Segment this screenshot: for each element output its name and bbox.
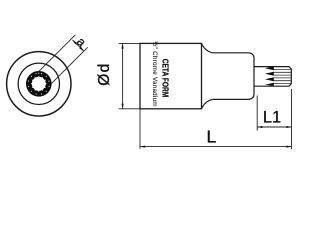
dim L arrow left: [140, 146, 145, 148]
dim L1 arrow left: [257, 126, 262, 128]
dim Od extension line top: [119, 42, 140, 44]
dim Od arrow bottom: [122, 104, 124, 109]
spline runout tooth 1: [265, 66, 274, 70]
neck transition top S-curve: [202, 43, 213, 52]
dim Od arrow top: [122, 43, 124, 48]
svg-text:L: L: [207, 127, 217, 147]
spline ring (12-point hole): [26, 71, 52, 97]
dim L extension line left: [139, 109, 141, 149]
svg-text:½" Chrome Vanadium: ½" Chrome Vanadium: [151, 41, 158, 107]
dim L dimension line: [140, 146, 292, 148]
dim L1 arrow right: [286, 126, 291, 128]
neck cylinder outline: [213, 53, 254, 100]
outer circle (socket body front view): [7, 52, 71, 116]
dim Od dimension line: [122, 43, 124, 108]
dim a extension line upper: [39, 35, 75, 71]
body outline (side view): [140, 43, 202, 108]
spline runout tooth 2: [265, 72, 274, 76]
dim Od extension line bottom: [119, 108, 140, 110]
middle circle (drive chamfer): [18, 63, 59, 104]
dim a arrow lower: [79, 47, 83, 51]
dim a arrow upper: [73, 40, 77, 44]
dim a dimension line: [73, 40, 84, 51]
spline shaft outline: [254, 67, 291, 87]
svg-text:CETA FORM: CETA FORM: [160, 59, 169, 98]
dim a extension line lower: [51, 47, 87, 83]
svg-text:Ød: Ød: [96, 64, 113, 86]
spline ridge lines: [273, 70, 291, 84]
dim L1 dimension line: [257, 126, 291, 128]
spline runout tooth 3: [265, 77, 274, 81]
dim L1 extension line left: [256, 96, 258, 131]
dim L arrow right: [286, 146, 291, 148]
neck transition bottom S-curve: [202, 99, 213, 108]
spline runout tooth 4: [265, 83, 274, 86]
dim L1 extension line right: [291, 89, 293, 149]
svg-text:L1: L1: [263, 109, 281, 127]
